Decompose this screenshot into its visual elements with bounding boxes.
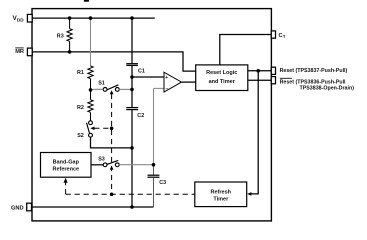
node GND C2 bbox=[130, 205, 134, 209]
svg-text:MR: MR bbox=[15, 49, 24, 55]
node A divider tap bbox=[89, 88, 93, 92]
svg-text:GND: GND bbox=[11, 206, 24, 212]
wire GND rail bbox=[32, 206, 154, 208]
svg-text:C2: C2 bbox=[137, 113, 144, 119]
wire comparator plus input bbox=[132, 76, 164, 78]
node dashed refresh bbox=[110, 193, 114, 197]
svg-text:+: + bbox=[165, 75, 168, 81]
wire reset output 2 bbox=[248, 79, 272, 81]
wire comparator output bbox=[182, 81, 196, 83]
arrowhead into refresh timer bbox=[247, 192, 251, 196]
svg-text:Band-Gap: Band-Gap bbox=[53, 159, 80, 165]
arrowhead S1 control bbox=[110, 90, 114, 94]
svg-text:T: T bbox=[283, 34, 286, 39]
svg-text:TPS3838-Open-Drain): TPS3838-Open-Drain) bbox=[300, 85, 355, 91]
refresh timer box bbox=[195, 182, 247, 207]
arrowhead band-gap control bbox=[64, 178, 68, 183]
pin VDD (terminal box) bbox=[27, 14, 32, 22]
svg-text:Reference: Reference bbox=[52, 167, 79, 173]
node R3 bottom bbox=[68, 50, 72, 54]
pin GND (terminal box) bbox=[27, 203, 32, 211]
node R1 top bbox=[89, 16, 93, 20]
switch S2 bbox=[87, 121, 93, 137]
wire feedback to refresh timer bbox=[249, 71, 258, 194]
arrowhead S2 control bbox=[90, 127, 94, 131]
svg-text:S1: S1 bbox=[98, 80, 105, 86]
arrowhead S3 control bbox=[110, 166, 114, 170]
capacitor C1 bbox=[126, 64, 138, 66]
pin Reset push-pull (terminal box) bbox=[271, 67, 275, 74]
capacitor C2 bbox=[126, 108, 138, 110]
svg-text:Timer: Timer bbox=[213, 196, 229, 202]
svg-text:S2: S2 bbox=[77, 133, 84, 139]
resistor R1 bbox=[88, 66, 93, 90]
resistor R2 bbox=[88, 90, 93, 121]
node C1 top bbox=[130, 16, 134, 20]
svg-text:−: − bbox=[166, 86, 169, 92]
svg-text:C3: C3 bbox=[159, 180, 166, 186]
outer device boundary box bbox=[32, 9, 271, 221]
switch S1 bbox=[95, 85, 132, 92]
wire MR rail to reset logic bbox=[32, 52, 196, 71]
wire comparator minus vertical bbox=[153, 88, 155, 164]
node dashed S2 branch bbox=[110, 127, 114, 131]
capacitor C3 bbox=[148, 165, 160, 207]
wire C1/C2 chain vertical bbox=[131, 18, 133, 207]
pin RESET (terminal box) bbox=[271, 77, 275, 84]
dashed S2 control branch bbox=[94, 127, 111, 129]
node S2 bottom rail bbox=[130, 146, 134, 150]
wire reset output 1 bbox=[248, 70, 272, 72]
svg-text:R3: R3 bbox=[57, 33, 64, 39]
svg-text:Refresh: Refresh bbox=[211, 189, 232, 195]
wire band-gap output to S3 bbox=[91, 164, 103, 166]
node R3 top bbox=[68, 16, 72, 20]
dashed refresh line horizontal bbox=[66, 193, 195, 195]
reset logic and timer box bbox=[196, 65, 248, 91]
wire S2 bottom to C2 line bbox=[91, 137, 133, 148]
wire comparator minus horizontal bbox=[154, 87, 165, 89]
wire VDD to R1 bbox=[90, 18, 92, 66]
node comparator plus bbox=[130, 75, 134, 79]
node S1 right bbox=[130, 88, 134, 92]
cropped text fragment at top edge bbox=[84, 0, 89, 2]
switch S3 bbox=[103, 160, 119, 166]
wire S3 to C3 node bbox=[119, 164, 153, 166]
node feedback tap bbox=[256, 69, 260, 73]
dashed control bus vertical bbox=[111, 94, 113, 194]
svg-text:Reset (TPS3837-Push-Pull): Reset (TPS3837-Push-Pull) bbox=[280, 68, 348, 74]
node S3 C3 bbox=[152, 163, 156, 167]
svg-text:Reset Logic: Reset Logic bbox=[206, 70, 237, 76]
svg-text:R1: R1 bbox=[77, 70, 84, 76]
wire node A to S1 bbox=[91, 88, 104, 90]
band-gap reference box bbox=[41, 153, 92, 178]
op-amp comparator bbox=[164, 72, 182, 92]
pin CT (terminal box) bbox=[271, 31, 275, 38]
wire CT connection bbox=[220, 35, 272, 65]
svg-text:R2: R2 bbox=[77, 105, 84, 111]
wire VDD rail bbox=[32, 17, 155, 19]
svg-text:S3: S3 bbox=[98, 157, 105, 163]
svg-text:and Timer: and Timer bbox=[209, 79, 236, 85]
dashed band-gap control vertical bbox=[65, 182, 67, 194]
pin MR (terminal box) bbox=[27, 48, 32, 56]
svg-text:DD: DD bbox=[17, 18, 24, 23]
svg-text:C1: C1 bbox=[138, 69, 145, 75]
resistor R3 bbox=[67, 18, 72, 52]
